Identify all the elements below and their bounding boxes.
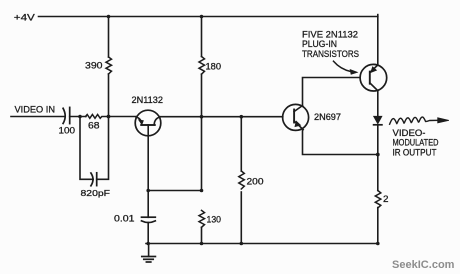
label PLUG-IN <box>302 39 337 49</box>
resistor R1 390 <box>106 57 112 74</box>
wire: 200 branch upper <box>240 117 242 171</box>
node: 2ohm-bus junction <box>376 242 380 246</box>
svg-text:200: 200 <box>247 177 264 187</box>
label VIDEO- <box>393 128 426 138</box>
label IR OUTPUT <box>393 148 437 158</box>
svg-text:PLUG-IN: PLUG-IN <box>302 39 337 49</box>
node: C1-820pF junction <box>78 115 82 119</box>
svg-text:130: 130 <box>207 215 222 225</box>
resistor R6 2 <box>375 191 381 209</box>
wire: 0.01 top lead <box>147 191 149 218</box>
label 820pF <box>81 188 111 198</box>
wire: 2ohm to ground bus <box>377 208 379 244</box>
svg-text:0.01: 0.01 <box>114 214 135 224</box>
wire: Q2 collector to Q3 base <box>303 78 360 106</box>
node: rail-390 junction <box>107 15 111 19</box>
label 130 <box>207 215 222 225</box>
ground <box>142 244 156 263</box>
node: Q1 base-130 junction link dot left <box>146 189 150 193</box>
node: 180-baseline junction <box>200 115 204 119</box>
label 0.01 <box>114 214 135 224</box>
svg-text:IR OUTPUT: IR OUTPUT <box>393 148 437 158</box>
wire: 820pF right leg <box>97 117 109 180</box>
node: 68-390 junction <box>107 115 111 119</box>
svg-text:MODULATED: MODULATED <box>393 138 439 148</box>
transistor Q3 plug-in 2N1132 <box>360 64 387 91</box>
wire: Q1 base to 130 link <box>148 190 201 192</box>
wire: 130 bottom lead <box>201 227 203 243</box>
label 2N1132 <box>132 95 164 105</box>
svg-text:VIDEO-: VIDEO- <box>393 128 426 138</box>
wire: 390 branch upper <box>108 17 110 58</box>
node: ground junction <box>146 242 150 246</box>
label FIVE 2N1132 <box>302 29 358 39</box>
wire: node to 2ohm resistor <box>377 155 379 191</box>
resistor R4 130 <box>199 210 205 227</box>
resistor R3 180 <box>199 57 205 75</box>
wire: diode to output node <box>377 125 379 155</box>
node: Q1 base-130 junction link dot right <box>200 189 204 193</box>
transistor Q1 2N1132 <box>135 110 161 136</box>
label +4V supply <box>14 11 36 22</box>
label 180 <box>206 62 222 72</box>
capacitor C3 0.01 <box>142 216 156 218</box>
wire: 180 branch upper <box>201 17 203 57</box>
watermark SeekIC.com <box>392 259 455 271</box>
wire: Q1 base lead <box>147 125 149 191</box>
wire: +4V top rail <box>39 16 378 18</box>
node: rail-180 junction <box>200 15 204 19</box>
diode D1 IR emitter <box>374 116 382 125</box>
wire: 390 branch lower <box>108 74 110 117</box>
label 2 <box>383 194 389 204</box>
svg-text:+4V: +4V <box>14 11 36 22</box>
wire: +4V rail to Q3 emitter <box>377 15 379 65</box>
label 100 <box>59 126 76 136</box>
label 200 <box>247 177 264 187</box>
annotation: IR output squiggle arrow <box>390 117 449 124</box>
svg-text:68: 68 <box>88 121 100 131</box>
resistor R2 68 <box>86 115 109 119</box>
label VIDEO IN <box>15 105 56 115</box>
svg-text:2N697: 2N697 <box>314 112 341 122</box>
svg-text:SeekIC.com: SeekIC.com <box>392 259 455 271</box>
wire: 200 branch lower <box>240 192 242 244</box>
node: 200-bus junction <box>240 242 244 246</box>
wire: cap to node <box>70 116 86 118</box>
label 68 <box>88 121 100 131</box>
svg-text:820pF: 820pF <box>81 188 111 198</box>
wire: Q2 emitter to output node <box>303 129 378 154</box>
svg-text:390: 390 <box>85 61 103 71</box>
node: 130-bus junction <box>200 242 204 246</box>
label TRANSISTORS <box>302 49 359 59</box>
wire: Q1 collector to Q2 base <box>160 116 283 118</box>
resistor R5 200 <box>239 171 245 189</box>
wire: 180 branch lower <box>201 74 203 190</box>
wire: 820pF left leg <box>80 117 93 180</box>
wire: 0.01 bottom lead <box>147 223 149 244</box>
capacitor C2 820pF <box>91 173 93 186</box>
svg-text:2N1132: 2N1132 <box>132 95 164 105</box>
node: 200-baseline junction <box>240 115 244 119</box>
label MODULATED <box>393 138 439 148</box>
label 390 <box>85 61 103 71</box>
svg-text:FIVE 2N1132: FIVE 2N1132 <box>302 29 358 39</box>
wire: video input lead <box>11 116 65 118</box>
svg-text:180: 180 <box>206 62 222 72</box>
svg-text:2: 2 <box>383 194 389 204</box>
svg-text:VIDEO IN: VIDEO IN <box>15 105 56 115</box>
annotation arrow to Q3 <box>334 61 358 74</box>
transistor Q2 2N697 <box>283 104 309 130</box>
node: emitter-diode-2ohm junction <box>376 153 380 157</box>
wire: ground bus bottom rail <box>146 243 378 245</box>
wire: Q3 collector to diode <box>377 91 379 117</box>
capacitor C1 100 <box>63 108 65 123</box>
label 2N697 <box>314 112 341 122</box>
svg-text:100: 100 <box>59 126 76 136</box>
wire: node to Q1 emitter <box>109 116 137 118</box>
svg-text:TRANSISTORS: TRANSISTORS <box>302 49 359 59</box>
